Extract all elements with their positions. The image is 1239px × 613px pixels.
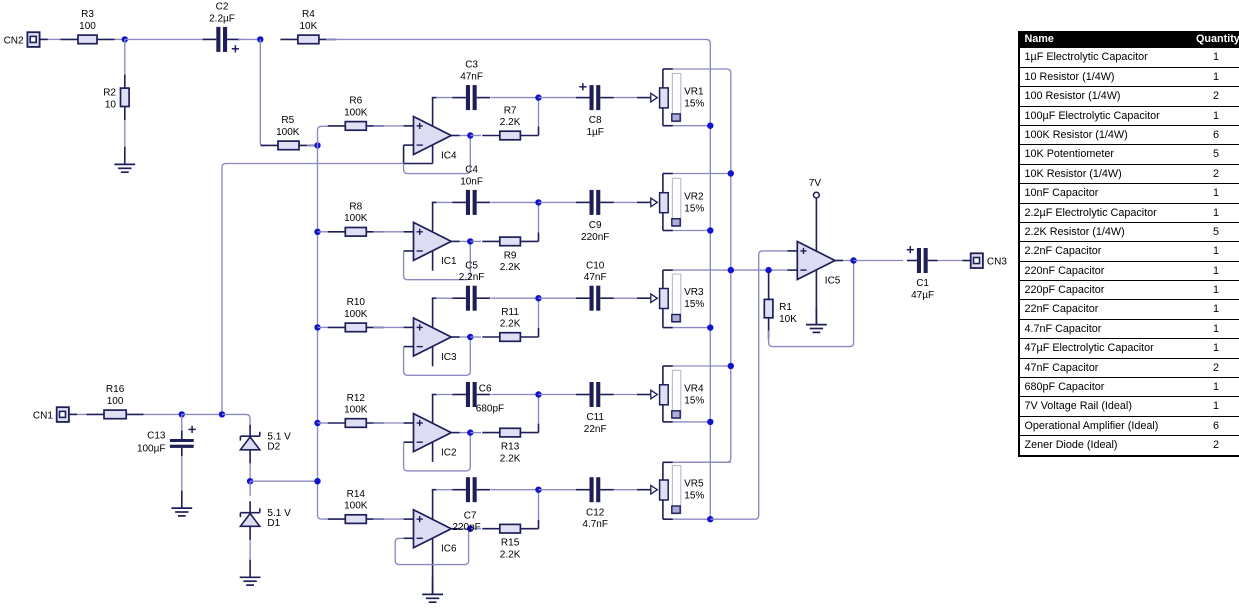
- svg-text:C6: C6: [479, 383, 492, 394]
- wire: [182, 413, 222, 415]
- wire: [538, 395, 540, 424]
- wire R7 to node: [537, 135, 540, 137]
- wire: [436, 394, 453, 396]
- wire: [673, 125, 710, 127]
- wire: [673, 327, 710, 329]
- svg-text:VR3: VR3: [684, 287, 704, 298]
- svg-text:100µF: 100µF: [137, 443, 166, 454]
- svg-text:VR2: VR2: [684, 191, 704, 202]
- op-amp IC4: [404, 117, 460, 162]
- capacitor C9: [576, 190, 614, 243]
- svg-text:VR1: VR1: [684, 87, 704, 98]
- wire: [373, 422, 403, 424]
- wire: [436, 297, 453, 299]
- connector CN3: [962, 253, 1007, 268]
- wire: [222, 164, 404, 415]
- wire IC1 feedback loop: [404, 244, 471, 280]
- wire: [318, 422, 328, 424]
- resistor R11: [482, 307, 538, 342]
- svg-text:C8: C8: [589, 115, 602, 126]
- op-amp IC3: [404, 318, 460, 366]
- resistor R13: [482, 428, 538, 464]
- wire: [318, 145, 328, 519]
- wire: [48, 38, 61, 40]
- svg-text:47µF: 47µF: [911, 290, 934, 301]
- wire IC3 feedback loop: [404, 339, 471, 375]
- potentiometer VR1: [637, 69, 704, 126]
- svg-text:2.2K: 2.2K: [500, 549, 521, 560]
- wire IC2 top pin: [432, 395, 434, 424]
- wire: [673, 518, 710, 520]
- junction: [314, 142, 320, 148]
- junction: [314, 324, 320, 330]
- capacitor C6: [452, 382, 504, 415]
- svg-text:IC6: IC6: [441, 544, 457, 555]
- potentiometer VR5: [637, 462, 704, 519]
- wire: [470, 432, 481, 434]
- wire: [491, 297, 536, 299]
- potentiometer VR4: [637, 366, 704, 422]
- wire: [538, 98, 540, 127]
- junction: [467, 238, 473, 244]
- svg-text:2.2K: 2.2K: [500, 262, 521, 273]
- svg-text:15%: 15%: [684, 203, 704, 214]
- junction: [314, 229, 320, 235]
- svg-text:2.2nF: 2.2nF: [459, 272, 485, 283]
- wire: [460, 336, 471, 338]
- junction: [535, 391, 541, 397]
- resistor R10: [328, 297, 384, 332]
- junction: [707, 227, 713, 233]
- capacitor C11: [576, 382, 614, 435]
- svg-text:2.2K: 2.2K: [500, 117, 521, 128]
- junction: [467, 526, 473, 532]
- svg-text:R4: R4: [302, 9, 315, 20]
- capacitor C7: [452, 477, 490, 533]
- svg-text:100: 100: [79, 21, 96, 32]
- ground: [240, 560, 261, 585]
- svg-text:2.2K: 2.2K: [500, 318, 521, 329]
- capacitor C1: [907, 246, 938, 301]
- ground: [806, 307, 827, 332]
- wire: [673, 365, 731, 367]
- wire: [539, 489, 578, 491]
- wire IC4 feedback loop: [404, 138, 471, 174]
- wire: [460, 240, 471, 242]
- svg-text:IC2: IC2: [441, 447, 457, 458]
- capacitor C2: [203, 2, 241, 53]
- wire: [249, 463, 251, 478]
- svg-text:2.2K: 2.2K: [500, 453, 521, 464]
- resistor R15: [482, 524, 538, 560]
- junction: [122, 36, 128, 42]
- wire: [318, 326, 328, 328]
- wire: [614, 394, 638, 396]
- resistor R12: [328, 393, 384, 428]
- svg-text:C5: C5: [465, 260, 478, 271]
- svg-text:R14: R14: [347, 489, 366, 500]
- potentiometer VR3: [637, 270, 704, 328]
- wire: [673, 230, 710, 232]
- wire IC6 feedback loop: [395, 531, 468, 565]
- wire: [77, 413, 86, 415]
- svg-text:680pF: 680pF: [476, 404, 504, 415]
- svg-text:CN2: CN2: [4, 36, 24, 47]
- wire: [373, 231, 403, 233]
- svg-text:R5: R5: [281, 115, 294, 126]
- op-amp IC2: [404, 414, 460, 462]
- svg-text:100K: 100K: [344, 501, 368, 512]
- junction: [728, 267, 734, 273]
- wire: [260, 39, 267, 145]
- wire: [470, 528, 481, 530]
- junction: [467, 334, 473, 340]
- wire: [470, 336, 481, 338]
- wire IC4 top pin: [432, 98, 434, 127]
- wire: [710, 251, 787, 519]
- wire: [318, 126, 328, 145]
- wire: [673, 461, 731, 463]
- wire: [614, 97, 638, 99]
- capacitor C13: [137, 426, 196, 457]
- wire IC6 ground pin: [432, 538, 434, 594]
- resistor R5: [261, 115, 317, 150]
- capacitor C4: [452, 165, 490, 215]
- svg-text:220pF: 220pF: [452, 522, 480, 533]
- svg-text:C2: C2: [216, 2, 229, 13]
- wire: [373, 326, 403, 328]
- wire IC3 top pin: [432, 298, 434, 327]
- resistor R7: [482, 105, 538, 140]
- wire: [436, 97, 453, 99]
- svg-text:D1: D1: [267, 518, 280, 529]
- svg-text:R15: R15: [501, 538, 520, 549]
- op-amp IC5: [787, 242, 843, 287]
- resistor R2: [103, 75, 129, 120]
- wire: [222, 414, 250, 427]
- wire R13 to node: [537, 432, 540, 434]
- wire: [460, 432, 471, 434]
- svg-text:10nF: 10nF: [460, 176, 483, 187]
- junction: [314, 478, 320, 484]
- svg-text:C7: C7: [464, 511, 477, 522]
- svg-text:R16: R16: [106, 384, 125, 395]
- voltage rail 7V: [809, 178, 822, 251]
- svg-text:15%: 15%: [684, 491, 704, 502]
- resistor R4: [280, 9, 336, 43]
- wire: [326, 39, 710, 519]
- resistor R3: [61, 9, 115, 43]
- junction: [257, 36, 263, 42]
- svg-text:R9: R9: [504, 250, 517, 261]
- svg-text:R13: R13: [501, 442, 520, 453]
- junction: [314, 420, 320, 426]
- zener diode D2: [240, 425, 291, 464]
- junction: [535, 199, 541, 205]
- wire: [614, 297, 638, 299]
- svg-text:15%: 15%: [684, 99, 704, 110]
- wire: [124, 39, 126, 75]
- ground: [114, 147, 135, 172]
- resistor R1: [764, 271, 797, 338]
- wire: [539, 97, 578, 99]
- junction: [728, 363, 734, 369]
- wire: [144, 413, 182, 415]
- wire: [436, 201, 453, 203]
- svg-text:C13: C13: [147, 431, 166, 442]
- wire: [436, 489, 453, 491]
- wire: [249, 481, 251, 496]
- wire: [538, 202, 540, 232]
- wire: [673, 421, 710, 423]
- svg-text:47nF: 47nF: [584, 272, 607, 283]
- svg-text:100K: 100K: [276, 127, 300, 138]
- svg-text:IC3: IC3: [441, 352, 457, 363]
- wire: [373, 518, 403, 520]
- wire: [538, 490, 540, 520]
- wire: [614, 489, 638, 491]
- svg-text:47nF: 47nF: [460, 72, 483, 83]
- wire: [249, 540, 251, 560]
- svg-text:R10: R10: [347, 297, 366, 308]
- junction: [535, 295, 541, 301]
- svg-text:C11: C11: [586, 412, 604, 423]
- op-amp IC6: [404, 510, 460, 555]
- zener diode D1: [240, 501, 291, 540]
- ground: [422, 577, 443, 602]
- junction: [467, 132, 473, 138]
- svg-text:VR4: VR4: [684, 384, 704, 395]
- junction: [707, 123, 713, 129]
- svg-text:10: 10: [105, 100, 117, 111]
- wire: [539, 394, 578, 396]
- capacitor C10: [576, 260, 614, 310]
- junction: [219, 411, 225, 417]
- svg-text:10K: 10K: [779, 314, 797, 325]
- junction: [765, 267, 771, 273]
- wire IC6 top pin: [432, 490, 434, 520]
- svg-text:C9: C9: [589, 220, 602, 231]
- wire IC1 top pin: [432, 202, 434, 232]
- svg-text:220nF: 220nF: [581, 232, 609, 243]
- junction: [535, 487, 541, 493]
- wire IC4 inverting tie: [403, 145, 405, 163]
- svg-text:100K: 100K: [344, 309, 368, 320]
- svg-text:R8: R8: [349, 202, 362, 213]
- svg-text:IC4: IC4: [441, 150, 457, 161]
- svg-text:C4: C4: [465, 165, 478, 176]
- svg-text:10K: 10K: [300, 21, 318, 32]
- op-amp IC1: [404, 222, 460, 270]
- resistor R14: [328, 489, 384, 523]
- wire: [470, 240, 481, 242]
- svg-text:15%: 15%: [684, 395, 704, 406]
- svg-text:C10: C10: [586, 260, 605, 271]
- svg-text:C1: C1: [916, 278, 929, 289]
- junction: [707, 516, 713, 522]
- wire bus VR tops: [673, 69, 731, 462]
- svg-text:2.2µF: 2.2µF: [209, 13, 235, 24]
- resistor R8: [328, 202, 384, 237]
- svg-text:100: 100: [107, 396, 124, 407]
- wire: [125, 38, 206, 40]
- junction: [535, 94, 541, 100]
- svg-text:15%: 15%: [684, 299, 704, 310]
- resistor R9: [482, 237, 538, 273]
- wire: [491, 97, 536, 99]
- svg-text:R3: R3: [81, 9, 94, 20]
- wire: [673, 269, 788, 271]
- svg-text:C12: C12: [586, 507, 605, 518]
- wire: [124, 120, 126, 147]
- wire: [238, 38, 260, 40]
- resistor R16: [87, 384, 144, 419]
- wire: [938, 260, 963, 262]
- wire R15 to node: [537, 528, 540, 530]
- svg-text:IC1: IC1: [441, 256, 457, 267]
- wire: [844, 260, 853, 262]
- wire: [491, 489, 536, 491]
- wire: [539, 297, 578, 299]
- junction: [707, 419, 713, 425]
- svg-text:IC5: IC5: [825, 275, 841, 286]
- svg-text:D2: D2: [267, 442, 280, 453]
- wire: [539, 201, 578, 203]
- wire R1 feedback to output: [769, 263, 854, 347]
- wire: [491, 201, 536, 203]
- svg-text:7V: 7V: [809, 178, 822, 189]
- svg-text:C3: C3: [465, 60, 478, 71]
- svg-text:R6: R6: [349, 96, 362, 107]
- svg-text:CN3: CN3: [987, 257, 1007, 268]
- capacitor C12: [576, 477, 614, 530]
- junction: [467, 429, 473, 435]
- svg-text:1µF: 1µF: [586, 127, 603, 138]
- svg-text:4.7nF: 4.7nF: [582, 519, 608, 530]
- wire: [614, 201, 638, 203]
- junction: [247, 478, 253, 484]
- junction: [707, 324, 713, 330]
- wire: [460, 528, 471, 530]
- resistor R6: [328, 96, 384, 131]
- svg-text:100K: 100K: [344, 213, 368, 224]
- wire: [115, 38, 125, 40]
- connector CN2: [4, 32, 48, 47]
- connector CN1: [33, 407, 77, 422]
- capacitor C5: [452, 260, 490, 310]
- wire: [854, 260, 903, 262]
- svg-text:R1: R1: [779, 302, 792, 313]
- svg-text:R11: R11: [501, 307, 519, 318]
- capacitor C3: [452, 60, 490, 110]
- wire: [181, 456, 183, 491]
- junction: [728, 170, 734, 176]
- svg-text:VR5: VR5: [684, 479, 704, 490]
- wire: [307, 144, 318, 146]
- wire IC5 ground pin: [815, 270, 817, 325]
- svg-text:100K: 100K: [344, 404, 368, 415]
- svg-text:R7: R7: [504, 105, 517, 116]
- potentiometer VR2: [637, 174, 704, 231]
- wire: [181, 414, 183, 431]
- svg-text:22nF: 22nF: [584, 424, 607, 435]
- wire: [318, 231, 328, 233]
- wire R9 to node: [537, 240, 540, 242]
- svg-text:CN1: CN1: [33, 411, 53, 422]
- wire R11 to node: [537, 336, 540, 338]
- wire: [673, 173, 731, 175]
- svg-text:R12: R12: [347, 393, 366, 404]
- junction: [179, 411, 185, 417]
- junction: [850, 257, 856, 263]
- wire: [538, 298, 540, 328]
- wire IC2 feedback loop: [404, 435, 471, 471]
- wire: [491, 394, 536, 396]
- ground: [171, 491, 192, 516]
- wire: [460, 135, 471, 137]
- wire: [470, 135, 481, 137]
- wire: [250, 480, 317, 482]
- wire: [373, 125, 403, 127]
- svg-text:100K: 100K: [344, 107, 368, 118]
- svg-text:R2: R2: [103, 87, 116, 98]
- parts list table: [1018, 31, 1239, 457]
- capacitor C8: [576, 83, 614, 138]
